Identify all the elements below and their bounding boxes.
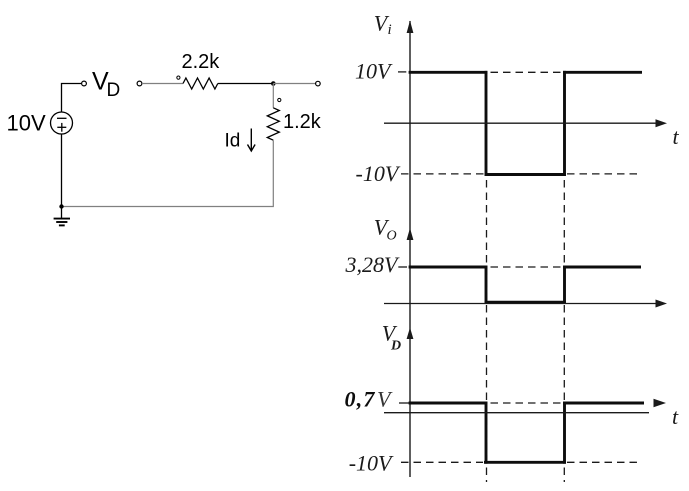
svg-text:10V: 10V [7, 111, 46, 136]
tick 0,7V [399, 402, 409, 404]
shared vertical axis line [409, 21, 411, 477]
svg-text:3,28V: 3,28V [345, 252, 401, 277]
Vi waveform high segment right [563, 71, 642, 74]
dashed -10V level left [401, 173, 484, 175]
svg-text:10V: 10V [355, 59, 393, 84]
dashed guide vertical at t2 [563, 180, 565, 482]
svg-text:D: D [107, 80, 121, 101]
current arrow Id down [248, 129, 256, 152]
dashed 0,7V level [491, 402, 564, 404]
svg-text:-10V: -10V [349, 450, 394, 475]
Vi waveform rising edge [563, 71, 566, 176]
svg-text:t: t [673, 124, 680, 149]
axis label Vo [374, 215, 397, 244]
axis arrowhead Vo [407, 228, 414, 240]
t axis arrow plot 2 [656, 300, 668, 308]
resistor R2 1.2k [267, 108, 279, 140]
wire R2 bottom to ground rail [63, 140, 273, 206]
svg-text:2.2k: 2.2k [182, 51, 221, 73]
svg-text:D: D [390, 339, 401, 354]
t axis plot 3 [384, 412, 649, 414]
svg-text:0,7: 0,7 [345, 387, 376, 412]
axis label Vd [382, 321, 401, 354]
wire R1 to junction [218, 83, 273, 85]
voltage source V1 (10V) [51, 112, 73, 134]
resistor R1 2.2k [183, 78, 218, 89]
svg-text:i: i [388, 22, 392, 38]
Vo waveform rising edge [563, 266, 566, 304]
pin marker R1 left [177, 76, 180, 79]
Vd waveform high segment right [563, 402, 644, 405]
terminal node right [316, 81, 321, 86]
axis label Vi [374, 11, 392, 39]
dashed -10V level right [567, 173, 641, 175]
Vi waveform falling edge [485, 71, 488, 176]
dashed -10V level right plot 3 [567, 461, 640, 463]
junction node ground [59, 204, 63, 208]
axis arrowhead Vd [407, 328, 414, 340]
arrow at 0,7V level [654, 399, 667, 408]
junction node A [271, 81, 276, 86]
wire junction to right terminal [273, 83, 315, 85]
Vd waveform rising edge [563, 402, 566, 464]
Vo waveform falling edge [485, 266, 488, 304]
ground [54, 207, 70, 226]
axis arrowhead Vi [407, 21, 414, 34]
Vi waveform high segment left [409, 71, 488, 74]
Vo waveform low segment [485, 301, 566, 304]
Vd waveform low segment [484, 461, 566, 464]
svg-text:1.2k: 1.2k [283, 111, 322, 133]
svg-text:O: O [387, 229, 397, 244]
Vo waveform high segment right [563, 266, 641, 269]
wire terminal to R1 [142, 83, 183, 85]
tick 3,28V [398, 266, 407, 268]
t axis plot 1 [384, 122, 657, 124]
tick 10V [398, 71, 406, 73]
t axis plot 2 [384, 303, 657, 305]
dashed -10V level left plot 3 [401, 461, 483, 463]
svg-text:Id: Id [225, 131, 241, 152]
Vi waveform low segment [485, 173, 566, 176]
Vd waveform falling edge [485, 402, 488, 464]
dashed 10V level [491, 71, 564, 73]
level label 0,7V [345, 387, 394, 412]
t axis arrow plot 1 [656, 119, 668, 127]
Vo waveform high segment left [409, 266, 488, 269]
svg-text:-10V: -10V [356, 161, 401, 186]
terminal node VD left [82, 81, 87, 86]
node label VD [92, 68, 120, 102]
wire source bottom down [61, 134, 63, 207]
Vd waveform high segment left [409, 402, 488, 405]
terminal node right of VD gap [137, 81, 142, 86]
svg-text:t: t [672, 404, 679, 429]
dashed 3,28V level [491, 266, 564, 268]
wire source top to node VD [62, 84, 82, 113]
pin marker R2 top [278, 98, 281, 101]
dashed guide vertical at t1 [486, 180, 488, 482]
wire junction down to R2 [272, 84, 274, 108]
